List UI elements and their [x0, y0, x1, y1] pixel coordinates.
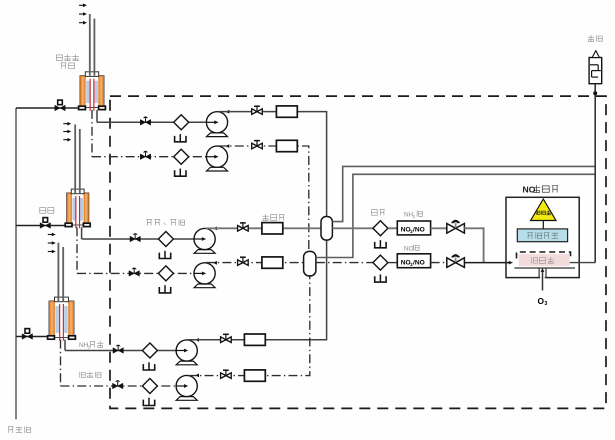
instrument air supply line	[15, 108, 17, 419]
merged sample pipe into analyzer	[464, 261, 513, 265]
probe 1 outlet dash-dot	[91, 110, 93, 157]
reaction cell dashed cover	[517, 252, 571, 259]
restrictor line1	[276, 106, 297, 117]
drain filter line6	[143, 398, 154, 406]
stem triangle to PMT	[542, 221, 544, 229]
pump line2	[206, 144, 229, 171]
flow meter line3	[262, 223, 283, 234]
purge valve probe 1	[55, 100, 65, 111]
purge valve probe 3	[22, 329, 32, 340]
label NH3 line	[404, 212, 416, 219]
valve line5 outlet	[221, 334, 232, 342]
probe 2 outlet dash-dot	[76, 227, 78, 273]
dryer filter NH3 line	[373, 221, 388, 236]
valve line1 inlet	[140, 116, 150, 125]
valve line2 inlet	[140, 151, 150, 160]
NO2/NO converter (NO line)	[397, 254, 430, 268]
sampling probe 2 flow arrows	[63, 122, 71, 142]
line 4 pipe pump4 outlet to cylinder2 dash-dot	[206, 262, 304, 264]
label purge	[40, 208, 54, 214]
line 3 pipe dryer to converter	[388, 227, 397, 229]
purge valve probe 2	[40, 218, 50, 229]
restrictor line2	[276, 140, 297, 151]
sampling probe 3 flow arrows	[48, 233, 56, 254]
drain dryer NO	[375, 274, 386, 282]
valve line6 inlet	[113, 380, 123, 389]
purge line to probe 3	[16, 336, 49, 338]
line 2 pipe probe1 to pump2	[92, 156, 206, 158]
label flow meter	[262, 214, 284, 220]
pump line6	[176, 374, 199, 401]
bypass line from cylinder 2 to vent header	[316, 174, 595, 257]
amplifier triangle	[531, 199, 556, 221]
valve line3 outlet	[238, 223, 249, 231]
svg-text:3: 3	[544, 301, 547, 307]
line 5 pipe probe3 to pump5	[65, 350, 176, 352]
valve line6 outlet	[221, 370, 232, 378]
flow meter line4	[262, 257, 283, 268]
line 3 pipe pump3 outlet to cylinder1	[206, 227, 321, 229]
filter line4	[158, 266, 173, 281]
filter line6	[142, 379, 157, 394]
vent silencer	[589, 51, 602, 84]
pump line5	[176, 338, 199, 365]
probe 2 outlet solid	[81, 227, 83, 239]
svg-text:/NO: /NO	[413, 260, 425, 267]
valve line2 outlet	[252, 141, 263, 149]
ozone port walls	[539, 268, 546, 278]
line 3 pipe valve to junction	[464, 228, 483, 262]
probe 3 outlet dash-dot	[60, 340, 62, 386]
reaction cell outlet pipe to vent riser	[570, 262, 596, 264]
valve line4 outlet	[238, 257, 249, 265]
drain filter line4	[159, 285, 170, 293]
sampling probe 1 dual-path body	[80, 72, 104, 111]
label reaction cell	[532, 257, 554, 264]
svg-text:/NO: /NO	[413, 226, 425, 233]
label dewater-filter	[146, 219, 184, 225]
NO2/NO converter (NH3 line)	[397, 221, 430, 235]
purge line to probe 1	[16, 107, 80, 109]
drain filter line3	[159, 251, 170, 259]
drain filter line5	[143, 362, 154, 370]
svg-text:NO: NO	[523, 185, 536, 195]
sampling probe 1 dual-path bottom flanges	[79, 106, 106, 109]
drain dryer NH3	[375, 240, 386, 248]
line 4 pipe dryer to converter dash-dot	[388, 262, 397, 264]
probe 1 outlet solid	[96, 110, 98, 122]
junction dot at enclosure border	[593, 91, 597, 95]
ozone inlet arrow	[540, 268, 545, 291]
photomultiplier box	[517, 229, 567, 242]
pump line4	[194, 261, 217, 288]
sampling probe 2 riser tubes	[75, 125, 80, 194]
valve line5 inlet	[113, 345, 123, 354]
selector valve NH3 line	[447, 220, 465, 233]
sampling probe 1 dual-path riser tubes	[90, 14, 95, 76]
label dryer	[371, 210, 385, 216]
sampling probe 2 body	[67, 189, 89, 228]
label PMT	[527, 232, 558, 238]
valve line4 inlet	[129, 268, 139, 277]
label amplifier	[536, 210, 551, 214]
line 6 pipe pump6 outlet riser to cylinder2 bottom dash-dot	[188, 276, 310, 376]
line 1 pipe probe1 to pump1	[97, 121, 206, 123]
purge line to probe 2	[16, 225, 66, 227]
sampling-system dashed enclosure	[110, 96, 606, 408]
label O3	[538, 296, 548, 307]
label NH3 catalytic line	[79, 342, 91, 349]
line 3 pipe converter to selector valve	[431, 227, 447, 229]
label raw flue gas	[80, 371, 101, 377]
vent riser pipe	[594, 84, 596, 263]
line 4 pipe probe2 to pump4	[77, 272, 194, 274]
restrictor line5	[244, 334, 265, 345]
probe 3 outlet solid	[64, 340, 66, 351]
filter line1	[174, 115, 189, 130]
sampling probe 1 dual-path flow arrows	[79, 4, 87, 25]
separator cylinder 2 (dash-dot lines)	[304, 251, 316, 276]
drain filter line1	[175, 134, 186, 142]
NO analyzer enclosure	[506, 197, 579, 277]
reaction cell	[519, 254, 570, 266]
line 3 pipe cylinder1 to NH3 converter	[332, 227, 372, 229]
line 2 pipe pump2 outlet dash-dot	[218, 146, 309, 251]
bypass line from cylinder 1 to vent header	[332, 166, 595, 221]
sampling probe 2 bottom flanges	[65, 223, 90, 226]
svg-text:NO: NO	[404, 246, 414, 253]
label instrument air	[8, 426, 31, 432]
filter line3	[158, 232, 173, 247]
sampling probe 3 body	[49, 297, 74, 341]
sampling probe 3 bottom flanges	[48, 336, 76, 339]
line 4 pipe cylinder2 to NO dryer dash-dot	[316, 262, 373, 264]
reaction cell bottom shelf	[514, 267, 575, 269]
filter line5	[142, 343, 157, 358]
line 1 pipe pump1 outlet	[218, 112, 327, 217]
sampling probe 3 riser tubes	[58, 243, 63, 301]
line 6 pipe probe3 to pump6	[61, 385, 177, 387]
label probe1 line1	[56, 54, 78, 60]
selector valve NO line	[447, 254, 465, 267]
pump line1	[206, 110, 229, 137]
valve line1 outlet	[252, 106, 263, 114]
label vent	[588, 35, 602, 41]
filter line2	[174, 149, 189, 164]
dryer filter NO line	[373, 255, 388, 270]
separator cylinder 1 (solid lines)	[321, 217, 332, 241]
label probe1 line2	[61, 63, 75, 69]
valve line3 inlet	[130, 233, 140, 242]
restrictor line6	[244, 370, 265, 381]
line 4 pipe converter to selector valve dash-dot	[431, 262, 447, 264]
pump line3	[194, 227, 217, 254]
label NO analyzer	[523, 185, 536, 195]
line 5 pipe pump5 outlet riser to cylinder1 bottom	[188, 240, 327, 340]
drain filter line2	[175, 169, 186, 177]
line 3 pipe probe2 to pump3	[82, 238, 194, 240]
label NO line	[404, 246, 414, 253]
